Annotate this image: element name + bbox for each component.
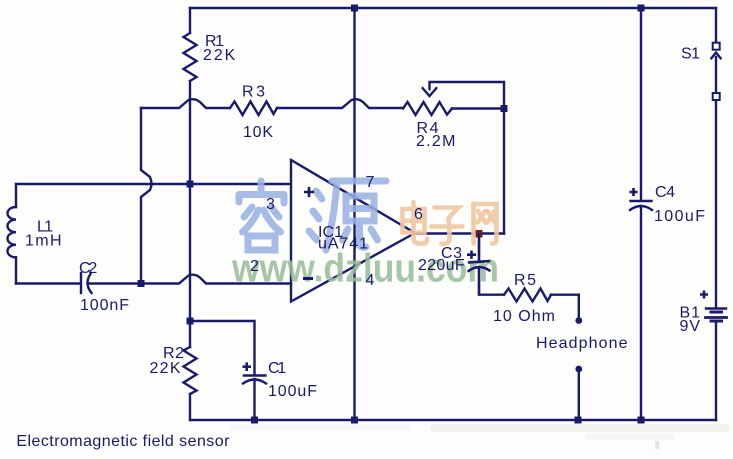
svg-text:R5: R5	[514, 272, 536, 289]
node bottom rail / pin4	[351, 417, 358, 424]
wire C4 branch vertical	[640, 8, 642, 200]
svg-text:10K: 10K	[243, 124, 273, 141]
battery B1	[706, 307, 726, 309]
node R2/C1	[187, 318, 194, 325]
capacitor C3 redraw over watermark	[469, 234, 491, 295]
svg-text:7: 7	[366, 174, 375, 191]
wire R5 right to headphone terminal	[551, 295, 579, 317]
svg-text:1mH: 1mH	[25, 232, 62, 249]
svg-text:Headphone: Headphone	[536, 335, 628, 352]
svg-text:2.2M: 2.2M	[416, 133, 455, 150]
plus mark C3	[467, 251, 476, 259]
watermark 子	[432, 208, 463, 244]
op-amp U1 triangle	[291, 160, 415, 302]
wire right rail top to S1	[715, 8, 717, 42]
svg-text:10 Ohm: 10 Ohm	[493, 308, 555, 325]
plus mark B1	[700, 291, 708, 299]
resistor R4 (preset)	[403, 102, 452, 115]
node bottom rail / C1	[251, 417, 258, 424]
svg-text:2: 2	[250, 258, 259, 275]
svg-text:uA741: uA741	[318, 236, 368, 253]
node B (C2/R3 branch)	[138, 280, 145, 287]
inductor L1	[7, 207, 16, 257]
svg-text:R3: R3	[242, 84, 265, 101]
wire C3 bottom lead to R5	[479, 267, 504, 295]
svg-text:C1: C1	[268, 360, 286, 377]
wire node R2 top lead	[189, 321, 191, 347]
node junction dots	[138, 5, 645, 424]
capacitor C1	[244, 374, 266, 376]
op-amp minus input mark	[303, 277, 313, 280]
wire output pin 6	[415, 232, 504, 234]
svg-text:22K: 22K	[150, 360, 181, 377]
wire node B to op-amp pin2 with hop	[141, 275, 291, 284]
watermark 电	[403, 202, 428, 244]
wire C2 right to node B	[88, 282, 141, 284]
svg-text:C4: C4	[655, 184, 675, 201]
resistor R3	[230, 102, 277, 116]
svg-text:22K: 22K	[203, 47, 236, 64]
wire C4 bottom lead	[640, 206, 642, 420]
plus mark C1	[243, 362, 252, 371]
capacitor C2	[80, 273, 82, 293]
node output / C3 (dark red)	[475, 230, 483, 238]
wire R4 wiper arm	[430, 82, 505, 109]
resistor R2	[184, 347, 197, 394]
wire R4 right lead to junction	[452, 107, 504, 109]
wire C3 top lead	[478, 234, 480, 262]
svg-text:100nF: 100nF	[80, 297, 129, 314]
wire L1 left vertical bottom	[15, 257, 17, 283]
wire R1 bottom to node A	[189, 81, 191, 184]
node R4 right junction	[501, 105, 508, 112]
wire R3 feedback rail y=108 with hops	[141, 99, 230, 108]
wire L1 bottom to C2	[16, 282, 80, 284]
svg-text:C2: C2	[79, 260, 97, 277]
arrowhead of R4 wiper	[423, 88, 437, 96]
headphone terminal upper	[575, 317, 582, 324]
watermark 容	[239, 181, 284, 250]
headphone terminal lower	[575, 366, 582, 373]
resistor R1	[184, 33, 197, 81]
svg-text:220uF: 220uF	[418, 257, 465, 274]
capacitor C4	[631, 200, 652, 202]
svg-text:4: 4	[366, 272, 375, 289]
wire headphone lower terminal to bottom rail	[578, 373, 580, 421]
plus mark C4	[630, 188, 638, 196]
svg-text:3: 3	[266, 196, 275, 213]
node top rail / supply	[351, 5, 358, 12]
switch S1 lever	[715, 57, 717, 93]
svg-text:S1: S1	[681, 46, 700, 63]
node bottom rail / C4	[638, 417, 645, 424]
wire L1 left vertical top	[15, 184, 17, 207]
svg-text:100uF: 100uF	[268, 383, 317, 400]
op-amp plus input mark	[243, 187, 709, 371]
wire supply line pin7/pin4 vertical	[353, 8, 355, 420]
svg-text:Electromagnetic field sensor: Electromagnetic field sensor	[16, 433, 230, 450]
wire battery to bottom rail	[715, 322, 717, 420]
wire R4 branch down to output	[503, 109, 505, 234]
watermark 网	[474, 204, 497, 244]
watermark 源	[309, 181, 386, 250]
svg-text:9V: 9V	[680, 318, 701, 335]
wire node A down through hop to node R2	[189, 184, 191, 321]
svg-text:6: 6	[414, 206, 423, 223]
wire left vertical upper (R1 branch)	[189, 8, 191, 33]
svg-text:100uF: 100uF	[654, 208, 705, 225]
wire L1 top rail y=184	[16, 183, 291, 185]
node top rail / C4	[638, 5, 645, 12]
wire C1 bottom lead	[253, 379, 255, 420]
node A (R1/L1/pin3)	[187, 181, 194, 188]
wire bottom rail	[190, 419, 716, 421]
switch S1 terminal upper	[713, 43, 720, 50]
wire R2 bottom lead / left bottom vertical	[189, 394, 191, 420]
wire top rail	[190, 7, 716, 9]
switch S1 terminal lower	[713, 93, 720, 100]
wire R3 right to hop over supply line	[277, 99, 403, 108]
capacitor C3	[469, 261, 490, 263]
wire node R2 to C1 top	[190, 321, 255, 374]
wire vertical from R3 left corner down to node B	[141, 108, 152, 284]
resistor R5	[504, 289, 551, 302]
node bottom rail / headphone	[575, 417, 582, 424]
wire S1 to battery	[715, 100, 717, 307]
